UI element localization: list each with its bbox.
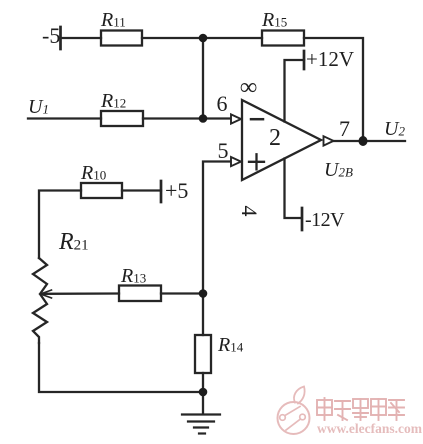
svg-text:5: 5 <box>218 138 229 163</box>
svg-text:∞: ∞ <box>240 75 257 101</box>
resistor R13 <box>119 286 161 302</box>
watermark chinese text <box>317 398 404 420</box>
wire +5 to R10 <box>122 189 161 191</box>
terminal +12V tick <box>303 51 306 69</box>
wire node A to R15 <box>203 37 262 39</box>
wire node D to ground <box>202 392 204 414</box>
svg-text:U2: U2 <box>384 118 405 140</box>
wire R13 to node C <box>161 292 203 294</box>
resistor R10 <box>81 183 122 198</box>
svg-text:R15: R15 <box>261 9 287 31</box>
potentiometer R21 zigzag <box>33 258 47 343</box>
svg-text:7: 7 <box>339 116 350 141</box>
svg-text:4: 4 <box>237 206 262 217</box>
pin 6 input arrow <box>231 114 241 123</box>
wire node B to inverting input <box>203 117 231 119</box>
svg-text:www.elecfans.com: www.elecfans.com <box>317 421 423 436</box>
svg-text:R11: R11 <box>100 9 126 31</box>
wire R14 to node D <box>202 373 204 392</box>
svg-text:U2B: U2B <box>324 159 353 181</box>
svg-text:-5: -5 <box>42 23 60 48</box>
node C junction dot <box>199 289 208 298</box>
node B junction dot <box>199 114 208 123</box>
wiper wire R21 to R13 <box>43 292 119 295</box>
svg-text:6: 6 <box>217 91 228 116</box>
svg-text:-12V: -12V <box>305 209 345 231</box>
output node junction dot <box>359 136 368 146</box>
wire R15 to right corner <box>304 38 363 138</box>
svg-text:R21: R21 <box>58 229 89 255</box>
wire -5 to R11 <box>61 37 102 39</box>
node A junction dot <box>199 34 208 43</box>
resistor R15 <box>262 31 304 46</box>
wire U1 to R12 <box>28 117 101 119</box>
resistor R11 <box>101 31 142 46</box>
node D junction dot <box>199 388 208 397</box>
svg-text:R12: R12 <box>100 90 126 112</box>
op-amp U2B triangle <box>242 100 321 180</box>
svg-text:R13: R13 <box>120 265 146 287</box>
wire R11 to node A <box>142 37 203 39</box>
wire pin5 branch vertical <box>203 162 231 294</box>
ground <box>182 415 220 434</box>
wire R10 to left rail <box>39 191 81 259</box>
pin 7 output arrow <box>324 136 334 145</box>
resistor R12 <box>101 111 143 126</box>
wire +12V feed <box>285 60 305 122</box>
svg-text:+5: +5 <box>165 178 188 203</box>
op-amp output wire <box>334 140 405 142</box>
wire node C down to R14 <box>202 294 204 336</box>
terminal +5 tick <box>160 181 163 202</box>
svg-text:2: 2 <box>269 125 281 151</box>
wire -12V feed <box>285 159 301 219</box>
watermark elecfans logo <box>278 387 310 435</box>
op-amp plus sign <box>249 154 264 169</box>
wiper arrow <box>41 290 52 298</box>
svg-text:R10: R10 <box>80 162 106 184</box>
terminal -5 tick <box>59 27 62 49</box>
wire R12 to node B <box>143 117 203 119</box>
wire node A down to node B <box>202 38 204 119</box>
wire bottom rail <box>39 343 203 392</box>
svg-text:+12V: +12V <box>306 47 354 71</box>
terminal -12V tick <box>301 208 304 230</box>
svg-text:R14: R14 <box>217 334 244 356</box>
resistor R14 <box>195 335 211 373</box>
svg-text:U1: U1 <box>28 96 49 118</box>
pin 5 input arrow <box>231 157 241 166</box>
op-amp minus sign <box>251 118 263 121</box>
